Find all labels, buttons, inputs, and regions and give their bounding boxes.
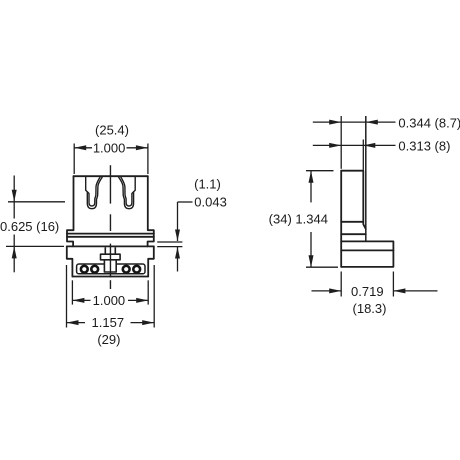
dim 1.157: dimension line segments xyxy=(67,322,86,324)
svg-text:0.625 (16): 0.625 (16) xyxy=(0,219,59,234)
dim 1.000 top: dimension line segments xyxy=(74,147,92,149)
front view: left lamp-pin slot outer outline xyxy=(86,177,103,209)
dim 0.043: lower extension line xyxy=(157,246,182,248)
svg-text:0.313 (8): 0.313 (8) xyxy=(398,138,450,153)
dim 0.043: upper extension line xyxy=(157,241,182,243)
front view: left lamp-pin slot inner contact outline xyxy=(88,177,100,206)
side view: rear lip line (also 0.344 extension) xyxy=(365,116,367,241)
dim 0.344: left extension line xyxy=(340,116,342,169)
svg-text:0.344 (8.7): 0.344 (8.7) xyxy=(398,115,460,130)
side view: left edge full height xyxy=(340,171,342,267)
svg-text:0.719: 0.719 xyxy=(351,284,384,299)
dim 1.000 bottom: right extension line xyxy=(147,280,149,304)
svg-text:(34) 1.344: (34) 1.344 xyxy=(269,212,328,227)
front view dimension arrowheads xyxy=(12,145,180,325)
front view: body left side with collar step and neck xyxy=(67,176,74,246)
dim 1.157: left extension line xyxy=(66,265,68,328)
dim 1.000 bottom: dimension line segments xyxy=(72,299,90,301)
front view: center snap-in plunger xyxy=(101,247,121,272)
dim 0.344: dimension line xyxy=(313,121,396,123)
front view: body right side with collar step and neck xyxy=(148,176,154,246)
svg-text:(29): (29) xyxy=(97,332,120,347)
side view: collar line xyxy=(341,233,366,235)
front view: base right side with step xyxy=(148,246,154,276)
dim 0.719: left extension line xyxy=(340,272,342,297)
dim 1.000 top: left extension line xyxy=(73,144,75,175)
svg-text:(25.4): (25.4) xyxy=(95,123,129,138)
svg-text:(18.3): (18.3) xyxy=(353,301,387,316)
dim 1.000 bottom: left extension line xyxy=(71,280,73,304)
dim 1.344: vertical dimension line segments xyxy=(310,171,312,203)
dim 0.625 left: lower feature line at base top xyxy=(6,245,64,247)
front view: collar upper line xyxy=(67,233,154,235)
front view: base left side with step xyxy=(67,246,73,276)
side view dimension arrowheads xyxy=(309,120,406,294)
dim 1.157: right extension line xyxy=(153,265,155,328)
dim 1.344: top bar xyxy=(306,170,334,172)
front view: right lamp-pin slot outer outline xyxy=(119,177,136,209)
front view: collar lower line xyxy=(67,236,154,238)
front view: vertical center line xyxy=(109,165,111,289)
dim 0.313: right extension line xyxy=(362,140,364,171)
dim 0.313: dimension line xyxy=(313,144,396,146)
front view: base bottom edge xyxy=(72,276,148,278)
side view: tower top and right edge with chamfer to lip xyxy=(341,171,366,229)
front view: right lamp-pin slot inner contact outline xyxy=(121,177,133,206)
svg-text:1.000: 1.000 xyxy=(93,293,126,308)
dim 0.625 left: upper feature line at pin seat xyxy=(8,201,65,203)
front view: lampholder body top edge xyxy=(74,175,148,177)
dim 0.719: dimension line tails xyxy=(312,290,342,292)
svg-text:0.043: 0.043 xyxy=(194,195,227,210)
side view: base mid line xyxy=(341,249,393,251)
dim 1.000 top: right extension line xyxy=(147,144,149,175)
front view: base top edge xyxy=(67,245,154,247)
dim 1.344: bottom bar xyxy=(306,266,338,268)
dim 0.625 left: vertical dimension line segments xyxy=(13,176,15,219)
side view: step line at tower bottom xyxy=(341,221,363,223)
dim 0.719: right extension line xyxy=(392,272,394,297)
front view: contact terminal strip xyxy=(77,264,145,274)
svg-text:1.157: 1.157 xyxy=(92,315,125,330)
front view: four wire-entry holes xyxy=(81,266,140,273)
svg-text:(1.1): (1.1) xyxy=(194,176,221,191)
dim 0.043: leader from text xyxy=(178,201,193,203)
side view: base outline xyxy=(341,241,393,267)
svg-text:1.000: 1.000 xyxy=(93,140,126,155)
